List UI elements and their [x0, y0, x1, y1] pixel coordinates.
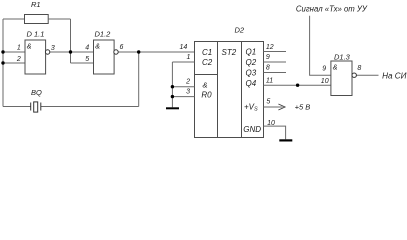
wire D2 pin3	[172, 96, 194, 98]
svg-text:D1.2: D1.2	[95, 30, 112, 39]
svg-text:6: 6	[120, 44, 124, 51]
svg-text:5: 5	[266, 99, 270, 106]
inversion bubble D1.3	[352, 73, 356, 77]
svg-text:Q4: Q4	[246, 79, 257, 88]
svg-text:4: 4	[85, 45, 89, 52]
wire D2 pin5 +Vs	[264, 106, 283, 108]
wire D2 pin8 Q3 stub	[264, 72, 287, 74]
gate D1.3 body	[331, 61, 352, 96]
crystal BQ body	[34, 102, 38, 112]
IC D2 divider 2	[241, 42, 243, 138]
wire D2 pin12 Q1 stub	[264, 51, 287, 53]
svg-text:GND: GND	[243, 125, 261, 134]
svg-text:D 1.1: D 1.1	[27, 30, 45, 39]
inversion bubble D1.2	[114, 50, 118, 54]
wire R1 right vertical	[70, 19, 72, 63]
svg-text:На СИ: На СИ	[382, 71, 407, 80]
wire left vertical	[2, 19, 4, 107]
svg-text:2: 2	[185, 79, 190, 86]
node dot D2 pin2	[171, 85, 174, 88]
op-amp U1 gate D1.1 body	[25, 40, 46, 74]
svg-text:Q1: Q1	[246, 48, 257, 57]
wire bottom left to BQ	[3, 106, 31, 108]
node dot D1.2 output	[137, 50, 140, 53]
svg-text:3: 3	[186, 88, 190, 95]
IC D2 divider 1	[217, 42, 219, 138]
svg-text:C2: C2	[202, 58, 213, 67]
node dot Q4 wire	[296, 84, 299, 87]
svg-text:C1: C1	[202, 48, 212, 57]
wire R1 right	[48, 18, 70, 20]
node dot D2 pin3	[171, 95, 174, 98]
svg-text:10: 10	[321, 78, 329, 85]
wire D2 pin11 Q4 to D1.3 pin10	[264, 84, 331, 86]
svg-text:ST2: ST2	[222, 48, 237, 57]
wire bottom BQ to mid vertical	[41, 106, 139, 108]
svg-text:R0: R0	[201, 91, 212, 100]
svg-text:10: 10	[267, 120, 275, 127]
wire D2 pin9 Q2 stub	[264, 61, 287, 63]
arrow +5V	[278, 104, 285, 110]
wire mid vertical from node to bottom	[138, 52, 140, 107]
svg-text:BQ: BQ	[31, 88, 42, 97]
svg-text:R1: R1	[31, 0, 41, 9]
svg-text:8: 8	[266, 65, 270, 72]
wire D1.2 pin6 to D2 pin14	[118, 51, 195, 53]
svg-text:Сигнал «Тх» от УУ: Сигнал «Тх» от УУ	[296, 5, 368, 14]
IC D2 body	[195, 42, 264, 138]
wire R1 left	[3, 18, 25, 20]
inversion bubble D1.1	[45, 50, 49, 54]
wire D2 pin2	[172, 86, 194, 88]
svg-text:9: 9	[266, 54, 270, 61]
ground bar pins 2-3	[166, 107, 179, 109]
svg-text:1: 1	[17, 45, 21, 52]
svg-text:+5 В: +5 В	[295, 103, 311, 112]
wire D1.2 pin4	[71, 51, 94, 53]
node dot D1.1 pin1	[1, 50, 4, 53]
svg-text:1: 1	[187, 54, 191, 61]
svg-text:D1.3: D1.3	[334, 53, 351, 62]
svg-text:&: &	[203, 81, 208, 90]
wire D1.2 pin5	[71, 62, 94, 64]
svg-text:11: 11	[266, 78, 273, 85]
resistor R1	[25, 15, 49, 24]
wire D2 pin1	[172, 61, 194, 63]
svg-text:Q3: Q3	[246, 69, 257, 78]
wire D1.3 pin8 output	[356, 74, 378, 76]
svg-text:D2: D2	[235, 26, 245, 35]
node dot D1.1 pin2	[1, 61, 4, 64]
wire D1.1 pin3 output	[50, 51, 71, 53]
svg-text:3: 3	[51, 45, 55, 52]
wire D2 pin10 GND	[264, 126, 286, 139]
svg-text:&: &	[27, 43, 32, 50]
svg-text:9: 9	[322, 66, 326, 73]
svg-text:12: 12	[266, 44, 274, 51]
svg-text:&: &	[333, 65, 338, 72]
ground bar GND pin10	[279, 139, 292, 141]
svg-text:5: 5	[85, 56, 89, 63]
svg-text:&: &	[95, 43, 100, 50]
svg-text:14: 14	[180, 44, 188, 51]
wire D1.1 pin1	[3, 51, 25, 53]
gate D1.2 body	[94, 40, 115, 74]
wire D1.1 pin2	[3, 62, 25, 64]
svg-text:2: 2	[16, 56, 21, 63]
IC D2 left column horizontal divider	[195, 74, 218, 76]
svg-text:Q2: Q2	[246, 58, 257, 67]
node dot D1.1 output	[69, 50, 72, 53]
wire Tx signal vertical	[310, 16, 331, 75]
wire D2 pins 1-2-3 vertical to ground	[171, 62, 173, 107]
svg-text:8: 8	[357, 65, 361, 72]
crystal BQ plates	[30, 103, 32, 111]
